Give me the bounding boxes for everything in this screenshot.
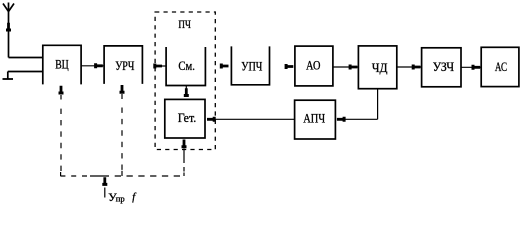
svg-text:ВЦ: ВЦ [55,56,69,71]
Upr f arrow stem [104,188,106,198]
arrowhead ChD to UZCh [412,65,421,70]
arrowhead Get to Sm [184,88,189,97]
block ChD (frequency detector) [358,46,396,89]
svg-text:ЧД: ЧД [372,60,388,75]
wire ChD down [377,89,379,120]
svg-text:ПЧ: ПЧ [178,19,191,31]
dashed tuning riser below URCh [121,108,123,171]
arrowhead APCh into Get [207,117,216,122]
wire UZCh to AS [461,66,482,68]
block URCh (RF amplifier) [104,46,142,84]
dashed tuning riser below VC [60,109,62,171]
arrowhead VC to URCh [94,63,103,68]
svg-text:См.: См. [178,58,195,73]
block UPCh (IF amplifier, open top) [231,46,269,84]
arrowhead control into VC [59,86,64,95]
svg-text:УРЧ: УРЧ [115,58,135,73]
block Sm (mixer, open top) [166,47,205,86]
dashed tuning riser below Get [183,167,185,172]
wire ChD to UZCh [397,66,422,68]
control stub under VC [60,95,62,100]
svg-text:АО: АО [306,58,320,73]
arrowhead into APCh [337,117,346,122]
wire AO to ChD [333,66,359,68]
arrowhead UPCh to AO [285,64,294,69]
control stub under Get [183,149,185,164]
antenna lead wire to VC [9,57,43,59]
svg-text:УЗЧ: УЗЧ [433,59,455,74]
wire APCh to Get [214,118,295,120]
antenna right arm [9,4,15,12]
arrowhead UZCh to AS [472,65,481,70]
block VC (input circuit) [43,45,81,84]
wire ChD to APCh [344,118,378,120]
arrowhead control into URCh [120,85,125,94]
wire Get up to Sm [185,86,187,90]
svg-text:Гет.: Гет. [178,110,197,125]
block AO (amplitude limiter) [295,46,333,86]
wire VC to URCh [81,65,104,67]
antenna left arm [3,4,9,12]
ground vertical [7,72,9,79]
tick at URCh riser junction [121,171,123,176]
dashed converter box PCh [155,12,215,150]
wire arrow stub into Sm [162,65,167,67]
arrowhead Upr f [102,177,107,186]
arrowhead AO to ChD [349,65,358,70]
arrowhead control into Get [182,140,187,149]
arrowhead Sm to UPCh [220,64,229,69]
arrowhead into Sm [153,64,162,69]
antenna mast [8,3,10,58]
ground lead wire [8,71,43,73]
block Get (local oscillator) [165,99,205,138]
dashed tuning bus horizontal [60,175,90,177]
control stub under URCh [121,94,123,99]
block AS (loudspeaker) [481,47,519,86]
arrowhead on antenna mast [6,23,11,32]
svg-text:АПЧ: АПЧ [303,111,325,126]
ground bar [3,78,14,80]
svg-text:УПЧ: УПЧ [241,58,262,73]
block APCh (AFC) [295,100,336,139]
block UZCh (audio amplifier) [422,48,461,87]
svg-text:АС: АС [495,59,507,74]
svg-text:пр: пр [116,194,125,204]
